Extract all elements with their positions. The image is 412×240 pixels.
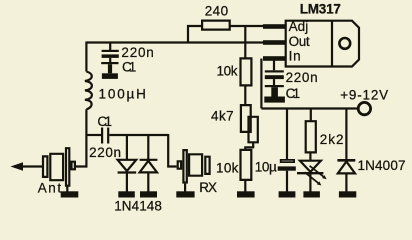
pin Out of U1 <box>263 40 286 45</box>
capacitor C4 10u lead bottom <box>286 171 288 192</box>
capacitor C4 10u lead top <box>286 109 288 160</box>
wire: In pin down to supply rail <box>260 59 262 109</box>
terminal +9-12V circle <box>358 102 370 114</box>
svg-text:C1: C1 <box>97 114 112 129</box>
ground under C2 <box>109 58 111 62</box>
wire: signal wire right of C1 <box>109 134 168 136</box>
wire: 1N4007 ground stem <box>345 173 347 191</box>
wire: 4k7 to 10k bottom <box>245 142 253 149</box>
wire: left vertical from rail to coil <box>85 42 87 72</box>
wire: Adj chain vertical <box>244 26 246 58</box>
LED D3 triangle <box>300 161 321 172</box>
svg-text:4k7: 4k7 <box>211 109 234 124</box>
wire: 10k to 4k7 <box>244 85 246 104</box>
capacitor C4 10u positive plate <box>281 160 294 162</box>
svg-text:Adj: Adj <box>289 19 309 34</box>
LED D3 arrowhead 1 <box>322 175 327 179</box>
inductor L1 100uH <box>85 72 92 110</box>
LED D3 arrow 2 <box>305 172 320 184</box>
connector RX plug <box>178 150 210 182</box>
resistor R1 240 left stub <box>188 26 202 43</box>
ground block LED <box>303 191 320 197</box>
svg-text:10µ: 10µ <box>255 160 277 175</box>
resistor R1 240 body <box>202 21 230 30</box>
wire: Out rail <box>86 41 264 43</box>
svg-text:100µH: 100µH <box>99 86 146 101</box>
diode D2 1N4148 right <box>140 135 158 192</box>
svg-text:Ant: Ant <box>38 180 62 195</box>
pin Adj of U1 <box>263 24 286 29</box>
ground under C3 <box>273 79 275 85</box>
wire: Ant ground stem <box>66 186 68 192</box>
wire: down to RX connector <box>168 134 176 167</box>
LED D3 lead bottom <box>309 173 311 191</box>
resistor R6 2k2 stub <box>310 109 312 121</box>
svg-text:2k2: 2k2 <box>320 132 344 147</box>
capacitor C1 series 220n <box>102 128 108 144</box>
pin In of U1 <box>263 56 286 61</box>
svg-text:C1: C1 <box>286 86 301 101</box>
LED D3 arrowhead 2 <box>317 181 322 185</box>
resistor R3 4k7 body <box>241 105 251 132</box>
connector Ant plug <box>43 148 75 186</box>
wire: RX ground stem <box>184 184 186 192</box>
ground block chain <box>237 191 255 197</box>
ground block C4 <box>279 191 296 197</box>
svg-text:1N4007: 1N4007 <box>358 158 406 173</box>
ground block 1N4007 <box>339 191 356 197</box>
svg-text:240: 240 <box>205 3 228 18</box>
resistor R4 overlap body <box>248 117 257 143</box>
ground block RX <box>176 191 194 197</box>
wire: 240 to Adj pin <box>230 25 264 27</box>
capacitor C3 220n plates <box>265 70 284 72</box>
resistor R2 10k top body <box>241 58 252 85</box>
ground block D2 <box>140 191 157 197</box>
svg-text:+9-12V: +9-12V <box>340 88 388 103</box>
svg-text:10k: 10k <box>217 64 238 79</box>
svg-text:RX: RX <box>199 180 217 195</box>
wire: antenna lead <box>14 165 43 167</box>
IC U1 LM317 package outline <box>286 21 359 67</box>
ground block D1 <box>118 191 135 197</box>
svg-text:C1: C1 <box>122 60 136 75</box>
diode D1 1N4148 left <box>118 135 137 192</box>
ground block Ant <box>61 191 79 197</box>
capacitor C3 220n lead <box>273 61 275 71</box>
wire: vertical down to Ant connector <box>76 135 87 167</box>
wire: supply rail <box>261 107 357 109</box>
LED D3 arrow 1 <box>310 166 325 178</box>
antenna arrowhead <box>11 162 24 171</box>
LED D3 lead <box>309 152 311 160</box>
capacitor C2 220n top-left lead and plates <box>109 43 111 50</box>
svg-text:LM317: LM317 <box>300 2 341 17</box>
svg-text:220n: 220n <box>286 70 318 85</box>
diode D4 1N4007 stub <box>345 109 347 161</box>
diode D4 1N4007 triangle <box>338 162 355 174</box>
diode D4 1N4007 cathode bar <box>337 159 355 162</box>
wire: chain ground stem <box>244 180 246 192</box>
LED D3 cathode bar <box>297 172 323 174</box>
svg-text:Out: Out <box>289 34 310 49</box>
svg-text:1N4148: 1N4148 <box>114 198 162 213</box>
svg-text:220n: 220n <box>121 45 153 60</box>
IC U1 mounting hole <box>339 38 350 49</box>
wire: signal wire left of C1 <box>86 134 102 136</box>
resistor R5 10k bottom body <box>241 150 252 180</box>
resistor R6 2k2 body <box>306 121 316 152</box>
svg-text:220n: 220n <box>89 145 121 160</box>
svg-text:In: In <box>289 49 301 64</box>
svg-text:10k: 10k <box>216 160 239 175</box>
wire: left vertical from coil to signal wire <box>85 109 87 135</box>
capacitor C4 10u negative plate <box>278 166 296 170</box>
